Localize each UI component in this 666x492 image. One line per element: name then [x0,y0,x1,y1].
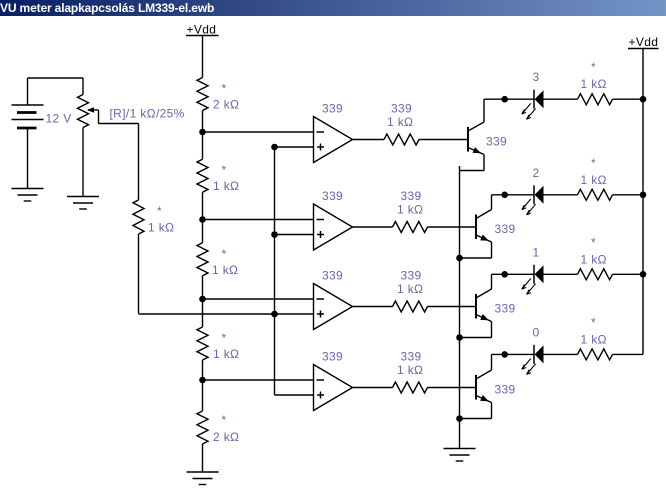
wire base resistor to transistor Q3 [428,306,477,308]
wire base resistor to transistor Q4 [428,387,477,389]
LED 2 [522,185,544,215]
svg-text:1 kΩ: 1 kΩ [212,263,238,277]
wire bus to U1D + input [275,394,314,396]
transistor Q2 (339) [460,195,492,258]
comparator U1A LM339 [314,117,353,163]
svg-text:*: * [222,82,227,96]
label base resistor U1C 339 1 kΩ [397,269,423,297]
LED 0 [522,345,544,375]
svg-text:*: * [591,235,596,249]
wire collector Q3 to LED1 [492,273,535,275]
label comparator U1D 339 [322,350,343,364]
wire collector Q4 to LED0 [492,353,535,355]
svg-text:[R]/1 kΩ/25%: [R]/1 kΩ/25% [110,107,185,121]
svg-text:1 kΩ: 1 kΩ [581,332,607,346]
label R1 value 2 kΩ [213,82,239,112]
label R2 value 1 kΩ [213,163,239,193]
battery V1 12V [12,78,44,189]
svg-text:1 kΩ: 1 kΩ [213,347,239,361]
wire R5 to ground [202,444,204,472]
svg-text:339: 339 [495,383,516,397]
svg-text:+Vdd: +Vdd [187,23,217,37]
label R-in value [148,204,174,235]
resistor R5 2 kΩ [197,411,208,444]
ground (divider) [187,472,219,485]
wire collector Q1 to LED3 [484,98,534,100]
svg-text:12 V: 12 V [46,112,72,126]
label LED 2 [533,166,540,180]
label LED resistor 1 1 kΩ [581,235,607,266]
label base resistor U1B 339 1 kΩ [397,189,423,217]
resistor base U1B 1 kΩ [393,222,428,233]
node +Vdd (right) [628,35,659,49]
resistor R3 1 kΩ [197,243,208,276]
svg-text:*: * [222,247,227,261]
node emitter Q2/bus [456,255,463,262]
wire LED2 to resistor [544,194,578,196]
svg-text:3: 3 [533,70,540,84]
label LED resistor 3 1 kΩ [581,60,607,91]
svg-text:339: 339 [322,189,343,203]
resistor R2 1 kΩ [197,159,208,192]
wire LED1 to resistor [544,273,578,275]
label R5 value 2 kΩ [213,413,239,444]
node collector/LED2 [501,192,508,199]
svg-text:2: 2 [533,166,540,180]
label LED resistor 0 1 kΩ [581,315,607,346]
resistor R4 1 kΩ [197,327,208,360]
LED 1 [522,265,544,295]
resistor LED0 1 kΩ [578,349,613,360]
svg-text:1 kΩ: 1 kΩ [397,282,423,296]
comparator U1B LM339 [314,204,353,250]
wire resistor to +Vdd rail [613,98,644,100]
node +Vdd (left) [186,23,219,37]
label LED 1 [533,245,540,259]
svg-text:1 kΩ: 1 kΩ [397,363,423,377]
wire resistor to +Vdd rail [613,353,644,355]
label LED 3 [533,70,540,84]
wire input line to comparator U1C + input [139,313,314,315]
svg-text:*: * [157,204,162,218]
svg-text:1 kΩ: 1 kΩ [387,115,413,129]
wire resistor to +Vdd rail [613,273,644,275]
svg-text:2 kΩ: 2 kΩ [213,98,239,112]
wire battery top to potentiometer [28,77,84,79]
wire LED0 to resistor [544,353,578,355]
label transistor Q1 339 [486,135,507,149]
wire bus to U1B + input [275,234,314,236]
svg-text:0: 0 [533,325,540,339]
ground (potentiometer) [67,197,99,210]
label transistor Q2 339 [495,222,516,236]
svg-text:*: * [591,315,596,329]
label comparator U1C 339 [322,269,343,283]
title bar [0,0,666,16]
node bus/U1A [271,144,278,151]
svg-text:*: * [222,331,227,345]
ground (battery) [12,189,44,202]
svg-text:1 kΩ: 1 kΩ [581,173,607,187]
node divider C [199,296,206,303]
svg-text:*: * [222,413,227,427]
wire U1C output to base resistor [353,306,393,308]
resistor R1 2 kΩ [197,78,208,111]
resistor LED3 1 kΩ [578,94,613,105]
svg-text:339: 339 [495,302,516,316]
label LED resistor 2 1 kΩ [581,156,607,187]
label transistor Q4 339 [495,383,516,397]
wire U1D output to base resistor [353,387,393,389]
comparator U1C LM339 [314,284,353,330]
svg-text:1 kΩ: 1 kΩ [148,221,174,235]
wire LED3 to resistor [544,98,578,100]
wire node C to comparator U1C - input [203,298,314,300]
label base resistor U1A 339 1 kΩ [387,102,413,130]
resistor LED2 1 kΩ [578,189,613,200]
svg-text:339: 339 [322,350,343,364]
node bus/U1B [271,231,278,238]
wire node A to comparator U1A - input [203,131,314,133]
svg-text:2 kΩ: 2 kΩ [213,430,239,444]
node collector/LED0 [501,351,508,358]
potentiometer R 1k 25% [78,78,99,197]
label base resistor U1D 339 1 kΩ [397,350,423,378]
wire R3 to R4 [202,276,204,327]
svg-text:339: 339 [401,269,422,283]
wire resistor to +Vdd rail [613,194,644,196]
svg-text:+Vdd: +Vdd [629,35,659,49]
node divider D [199,377,206,384]
resistor LED1 1 kΩ [578,269,613,280]
label LED 0 [533,325,540,339]
label comparator U1B 339 [322,189,343,203]
svg-text:*: * [222,163,227,177]
resistor R-in 1 kΩ (wiper) [133,200,144,234]
comparator U1D LM339 [314,365,353,411]
label battery 12 V [46,112,72,126]
node emitter Q4/bus [456,415,463,422]
label potentiometer [R]/1 kΩ/25% [110,107,185,121]
wire node B to comparator U1B - input [203,219,314,221]
ground (emitters) [444,449,476,462]
wire node D to comparator U1D - input [203,379,314,381]
transistor Q3 (339) [460,274,492,337]
wire U1B output to base resistor [353,226,393,228]
transistor Q4 (339) [460,354,492,418]
svg-text:1 kΩ: 1 kΩ [581,252,607,266]
node rail/LED2 resistor [640,192,647,199]
label R3 value 1 kΩ [212,247,238,277]
resistor base U1D 1 kΩ [393,382,428,393]
svg-text:*: * [591,60,596,74]
wire input resistor down to + bus line [138,234,140,314]
wire + input bus [274,147,276,395]
wire +Vdd to R1 [202,36,204,78]
wire base resistor to transistor Q2 [428,226,477,228]
svg-text:339: 339 [322,102,343,116]
svg-text:1 kΩ: 1 kΩ [213,179,239,193]
node collector/LED3 [501,96,508,103]
svg-text:339: 339 [401,189,422,203]
svg-text:*: * [591,156,596,170]
resistor base U1C 1 kΩ [393,301,428,312]
svg-text:1 kΩ: 1 kΩ [397,203,423,217]
wire +Vdd rail right [642,49,644,355]
resistor base U1A 1 kΩ [384,134,419,145]
wire collector Q2 to LED2 [492,194,535,196]
node divider A [199,129,206,136]
svg-text:1 kΩ: 1 kΩ [581,77,607,91]
svg-text:339: 339 [322,269,343,283]
label transistor Q3 339 [495,302,516,316]
svg-text:339: 339 [391,102,412,116]
wire R2 to R3 [202,192,204,243]
node rail/LED1 resistor [640,271,647,278]
wire wiper to input resistor [99,110,139,200]
label comparator U1A 339 [322,102,343,116]
svg-text:339: 339 [495,222,516,236]
node bus/U1C [271,311,278,318]
svg-text:1: 1 [533,245,540,259]
node divider B [199,216,206,223]
node emitter Q3/bus [456,334,463,341]
label R4 value 1 kΩ [213,331,239,361]
wire emitter bus [459,166,461,449]
transistor Q1 (339) [460,99,485,170]
svg-text:339: 339 [486,135,507,149]
wire bus to U1A + input [275,146,314,148]
wire R1 to R2 [202,111,204,160]
node rail/LED3 resistor [640,96,647,103]
node collector/LED1 [501,271,508,278]
LED 3 [522,90,544,120]
wire R4 to R5 [202,360,204,411]
wire U1A output to base resistor [353,139,385,141]
wire base resistor to transistor Q1 [419,139,468,141]
svg-text:339: 339 [401,350,422,364]
